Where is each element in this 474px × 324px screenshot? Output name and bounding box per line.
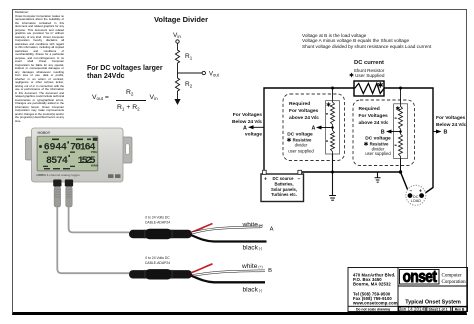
svg-text:−: − — [410, 188, 413, 194]
svg-text:B: B — [444, 130, 448, 136]
svg-text:PRH: PRH — [91, 150, 97, 154]
svg-text:black (-): black (-) — [243, 245, 263, 252]
svg-text:Rev B: Rev B — [455, 307, 465, 311]
svg-text:A: A — [270, 226, 274, 232]
svg-text:divider: divider — [295, 143, 308, 148]
svg-text:0 to 24 Volts DC: 0 to 24 Volts DC — [145, 256, 170, 260]
svg-text:8574: 8574 — [46, 156, 68, 167]
svg-text:Computer: Computer — [442, 273, 462, 278]
svg-text:+: + — [264, 177, 267, 183]
svg-text:Required: Required — [289, 101, 310, 107]
svg-text:Below 24 Vdc: Below 24 Vdc — [232, 119, 263, 125]
svg-text:User Supplied: User Supplied — [355, 73, 385, 78]
svg-text:0 to 24 Volts DC: 0 to 24 Volts DC — [145, 216, 170, 220]
svg-text:For Voltages: For Voltages — [436, 115, 466, 121]
svg-text:Corporation: Corporation — [442, 280, 467, 285]
svg-text:B: B — [381, 129, 385, 135]
svg-text:R2: R2 — [185, 81, 193, 89]
svg-text:Jan 14 2014: Jan 14 2014 — [399, 307, 425, 312]
svg-text:Vin: Vin — [150, 94, 159, 101]
svg-text:DC source: DC source — [273, 176, 295, 181]
svg-text:LOAD: LOAD — [411, 199, 422, 203]
svg-text:www.onsetcomp.com: www.onsetcomp.com — [352, 301, 398, 306]
svg-text:black (-): black (-) — [243, 287, 263, 294]
svg-text:R1 + R2: R1 + R2 — [117, 104, 140, 112]
svg-text:CABLE-ADAP24: CABLE-ADAP24 — [145, 261, 170, 265]
svg-text:A: A — [243, 125, 247, 131]
svg-text:Do not scale drawing: Do not scale drawing — [356, 307, 390, 311]
svg-text:R2: R2 — [126, 89, 134, 97]
svg-text:Below 24 Vdc: Below 24 Vdc — [436, 122, 467, 128]
svg-text:voltage: voltage — [245, 132, 262, 138]
svg-text:above 24 Vdc: above 24 Vdc — [359, 120, 389, 126]
svg-text:white (+): white (+) — [242, 221, 264, 228]
svg-text:Bourne, MA 02532: Bourne, MA 02532 — [353, 282, 391, 287]
svg-text:HOBO 4-channel analog logger: HOBO 4-channel analog logger — [37, 173, 80, 177]
svg-text:For Voltages: For Voltages — [233, 112, 263, 118]
svg-text:−: − — [298, 177, 301, 183]
svg-text:Required: Required — [359, 106, 380, 112]
svg-text:DC voltage: DC voltage — [287, 131, 313, 137]
svg-text:Sheet 1 of 1: Sheet 1 of 1 — [428, 307, 447, 311]
svg-text:HOBO®: HOBO® — [38, 131, 51, 135]
svg-text:For Voltages: For Voltages — [359, 113, 389, 119]
svg-text:Typical Onset System: Typical Onset System — [405, 300, 461, 306]
svg-text:user supplied: user supplied — [365, 151, 391, 156]
svg-text:+: + — [419, 188, 422, 194]
svg-text:onset: onset — [403, 268, 437, 287]
svg-text:CABLE-ADAP24: CABLE-ADAP24 — [145, 221, 170, 225]
svg-text:Vin: Vin — [173, 32, 181, 39]
svg-text:A: A — [312, 125, 316, 131]
svg-text:R1: R1 — [185, 53, 193, 61]
svg-text:Voltage Divider: Voltage Divider — [154, 15, 208, 24]
svg-text:Solar panels,: Solar panels, — [271, 187, 297, 192]
svg-text:DC current: DC current — [354, 60, 384, 66]
svg-text:B: B — [268, 268, 272, 274]
svg-text:above 24 Vdc: above 24 Vdc — [289, 115, 319, 121]
svg-text:user supplied: user supplied — [288, 149, 314, 154]
svg-text:Batteries,: Batteries, — [274, 182, 293, 187]
svg-text:Vout: Vout — [209, 72, 220, 78]
svg-text:white (+): white (+) — [241, 263, 263, 270]
svg-text:DC voltage: DC voltage — [365, 135, 391, 141]
svg-text:For Voltages: For Voltages — [289, 108, 319, 114]
svg-text:KWH: KWH — [91, 164, 98, 168]
svg-text:Vout =: Vout = — [92, 94, 109, 101]
svg-text:Turbines etc.: Turbines etc. — [271, 192, 297, 197]
